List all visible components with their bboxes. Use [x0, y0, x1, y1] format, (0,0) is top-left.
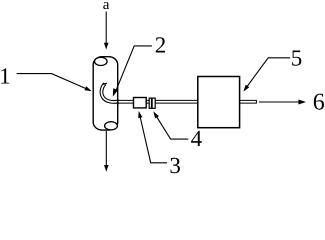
svg-text:2: 2 — [155, 32, 167, 57]
svg-text:4: 4 — [191, 126, 203, 151]
svg-text:3: 3 — [169, 153, 181, 177]
svg-text:a: a — [103, 0, 110, 13]
svg-text:5: 5 — [291, 46, 303, 71]
svg-text:1: 1 — [0, 63, 11, 88]
svg-text:6: 6 — [313, 90, 325, 116]
